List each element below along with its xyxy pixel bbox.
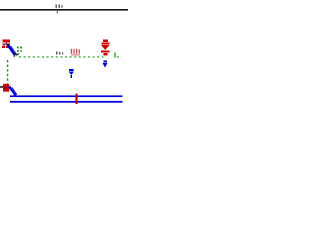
- node blue symbol above bus: [69, 69, 74, 78]
- node label on top wire: [56, 5, 63, 14]
- pin blue mark under C1: [103, 61, 108, 68]
- capacitor C1 red symbol right: [101, 40, 110, 56]
- resistor R1 red label left: [2, 40, 10, 49]
- wire green vertical net: [7, 60, 9, 84]
- connector J1 red square: [3, 84, 9, 92]
- node green tick right: [114, 52, 115, 57]
- bus entry blue diagonals to bus: [9, 87, 16, 96]
- bus blue line 2: [10, 101, 123, 103]
- wire top horizontal net: [0, 9, 128, 11]
- wire green dashed net line: [19, 56, 104, 58]
- junction red tick on bus: [75, 94, 77, 104]
- wire black stub left edge: [0, 86, 3, 88]
- bus entry blue diagonal left: [8, 45, 16, 56]
- node red global label on net: [71, 49, 80, 56]
- net label green text left: [17, 47, 22, 55]
- bus blue line 1: [10, 95, 123, 97]
- node small dark text on net: [56, 52, 63, 55]
- wire black diagonal left: [6, 43, 14, 53]
- pin marks black: [13, 53, 18, 57]
